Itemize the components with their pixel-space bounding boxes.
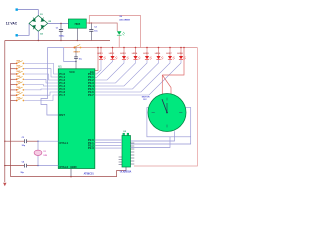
ULN output pin 3 stub: [131, 148, 135, 150]
wire +5V upper feed to LED rail: [89, 16, 140, 48]
wire LED8 to P0.7: [95, 60, 181, 95]
junction regulator gnd on rail: [77, 40, 78, 41]
svg-text:P1.7: P1.7: [59, 93, 65, 97]
LED4 triangle: [133, 56, 137, 59]
wire SW2 to P1.1: [24, 69, 58, 77]
switch SW8 terminal b: [23, 100, 25, 102]
wire node to XTAL1: [38, 140, 58, 142]
ULN output pin 8 stub: [131, 163, 135, 165]
LED6 triangle: [156, 56, 160, 59]
switch SW7 terminal a: [16, 94, 18, 96]
svg-text:U1: U1: [58, 65, 62, 68]
wire reset to RST pin: [41, 48, 58, 116]
ULN output pin 5 stub: [131, 154, 135, 156]
wire LED4 to P0.3: [95, 60, 136, 83]
svg-text:C1: C1: [56, 28, 59, 30]
motor needle: [162, 99, 167, 112]
svg-text:12V: 12V: [143, 99, 147, 101]
wire P2.1 to ULN in2: [95, 142, 122, 144]
diode D3 (bottom-right arm): [41, 25, 45, 29]
diode D1 (top-left arm): [32, 18, 36, 22]
wire border to C4: [5, 165, 24, 167]
svg-text:D9: D9: [120, 16, 123, 18]
wire bus to SW8: [11, 100, 16, 102]
svg-text:AT89C51: AT89C51: [84, 172, 95, 175]
wire ULN out1 to motor bottom: [131, 131, 175, 141]
junction rail LED1: [100, 47, 102, 49]
driver U2 top pin bumps: [123, 133, 125, 135]
wire bridge + output to regulator: [48, 22, 69, 24]
junction input cap top: [60, 23, 62, 25]
svg-text:10u: 10u: [94, 30, 98, 32]
LED7 cathode bar: [168, 59, 172, 61]
LED3 cathode bar: [122, 59, 126, 61]
terminal T2 (AC neutral): [16, 34, 18, 36]
LED2 triangle: [110, 56, 114, 59]
switch SW6 lever: [17, 87, 23, 90]
capacitor C2 top lead: [90, 23, 92, 29]
wire motor pin 2 drop: [162, 75, 171, 94]
right border wire: [134, 48, 197, 167]
LED2 emission arrows: [115, 56, 117, 59]
crystal X1 vertical wire: [37, 141, 39, 165]
junction rail LED2: [112, 47, 114, 49]
junction MCU gnd on bottom rail: [70, 176, 72, 178]
wire reset blue top: [48, 47, 64, 49]
wire rail to motor top: [162, 48, 184, 76]
wire LED5 to P0.4: [95, 60, 147, 86]
svg-text:LED6: LED6: [155, 53, 161, 55]
switch SW3 lever: [17, 71, 23, 74]
junction bridge gnd on rail: [38, 40, 39, 41]
wire bus to SW6: [11, 89, 16, 91]
LED7 emission arrows: [173, 56, 175, 59]
LED5 anode stub: [146, 48, 148, 57]
svg-text:7805: 7805: [74, 22, 80, 26]
LED1 anode stub: [100, 48, 102, 57]
LED D9 emission arrows: [122, 32, 125, 36]
junction output cap top: [91, 22, 93, 24]
motor hub: [166, 112, 168, 114]
switch SW8 terminal a: [16, 100, 18, 102]
switch SW3 terminal a: [16, 73, 18, 75]
ground symbol: [3, 183, 6, 186]
junction rail LED5: [146, 47, 148, 49]
switch SW6 terminal a: [16, 89, 18, 91]
wire blue jog to RST cap node: [64, 48, 76, 62]
wire bus to SW3: [11, 73, 16, 75]
LED1 cathode bar: [99, 59, 103, 61]
junction rail LED6: [158, 47, 160, 49]
junction border xtal1: [4, 141, 5, 142]
svg-text:LED7: LED7: [166, 53, 172, 55]
svg-text:LED8: LED8: [177, 53, 183, 55]
LED6 emission arrows: [161, 56, 163, 59]
svg-text:D2: D2: [49, 21, 51, 23]
motor needle vertical: [166, 103, 168, 113]
switch SW5 lever: [17, 82, 23, 85]
wire SW8 to P1.7: [24, 95, 58, 101]
wire T1 to bridge top: [18, 10, 38, 16]
junction xtal node top: [37, 141, 38, 142]
switch SW4 lever: [17, 77, 23, 80]
terminal T1 (AC live): [16, 8, 18, 10]
motor tick right: [179, 112, 182, 114]
svg-text:LED-GREEN: LED-GREEN: [119, 19, 130, 21]
svg-text:30p: 30p: [20, 172, 24, 174]
left border wire: [4, 41, 6, 183]
LED5 emission arrows: [150, 56, 152, 59]
wire ULN out3 to motor loop: [131, 137, 171, 148]
LED4 cathode bar: [133, 59, 137, 61]
LED8 triangle: [179, 56, 183, 59]
junction rail LED4: [135, 47, 137, 49]
LED D9 green power indicator triangle: [117, 31, 122, 35]
motor tick top: [166, 98, 168, 101]
LED1 emission arrows: [104, 56, 106, 59]
MCU U1 body: [58, 69, 95, 169]
main +5V LED rail: [64, 47, 198, 49]
wire SW7 to P1.6: [24, 92, 58, 95]
wire node to XTAL2: [38, 165, 58, 167]
wire SW3 to P1.2: [24, 74, 58, 80]
wire bus to SW5: [11, 84, 16, 86]
reset button SW9 terminal a: [74, 47, 76, 49]
LED6 anode stub: [158, 48, 160, 57]
svg-text:XTAL2: XTAL2: [59, 165, 68, 169]
reset button SW9 lever: [75, 45, 81, 48]
LED8 emission arrows: [184, 56, 186, 59]
svg-text:LED2: LED2: [109, 53, 115, 55]
svg-text:1000u: 1000u: [59, 36, 65, 38]
driver U2 body: [122, 136, 131, 168]
svg-text:C3: C3: [22, 137, 25, 139]
switch SW1 terminal b: [23, 63, 25, 65]
motor M1 body: [148, 94, 186, 132]
wire C4 to node: [27, 165, 38, 167]
LED7 anode stub: [169, 48, 171, 57]
capacitor C3 plates: [24, 139, 26, 143]
switch SW3 terminal b: [23, 73, 25, 75]
ULN input pin 6 stub: [119, 161, 122, 163]
junction +5V takeoff: [89, 22, 91, 24]
capacitor C1 top lead: [60, 23, 62, 29]
switch SW2 terminal a: [16, 68, 18, 70]
LED3 anode stub: [123, 48, 125, 57]
regulator U3 7805 body: [68, 19, 86, 28]
switch SW4 terminal b: [23, 78, 25, 80]
LED2 anode stub: [112, 48, 114, 57]
ULN output pin 4 stub: [131, 151, 135, 153]
svg-text:D1: D1: [40, 14, 42, 16]
LED5 triangle: [145, 56, 149, 59]
ULN2003 gnd pin wire: [125, 167, 127, 171]
svg-text:LED4: LED4: [132, 52, 138, 55]
bottom ground rail: [11, 171, 127, 177]
motor tick bottom: [166, 125, 168, 128]
ground rail top: [5, 40, 110, 42]
wire bridge - to ground rail: [37, 31, 39, 40]
capacitor C2 bottom lead: [90, 32, 92, 41]
wire LED1 to P0.0: [95, 60, 101, 74]
diode D2 (top-right arm): [41, 18, 45, 22]
junction RST cap node: [75, 61, 76, 62]
svg-text:ULN2003A: ULN2003A: [120, 171, 132, 174]
LED4 emission arrows: [138, 56, 140, 59]
junction rail motor feed: [183, 47, 185, 49]
LED8 cathode bar: [179, 59, 183, 61]
diode D4 (bottom-left arm): [32, 25, 36, 29]
capacitor C1 bottom lead: [60, 32, 62, 41]
switch SW4 terminal a: [16, 78, 18, 80]
junction xtal node bottom: [37, 165, 38, 166]
LED6 cathode bar: [156, 59, 160, 61]
bridge rectifier BR1 outline: [29, 16, 48, 32]
svg-text:RST: RST: [59, 113, 65, 117]
switch SW6 terminal b: [23, 89, 25, 91]
wire LED6 to P0.5: [95, 60, 159, 89]
svg-text:12 VAC: 12 VAC: [6, 21, 18, 25]
junction C1 gnd on rail: [60, 40, 61, 41]
svg-text:XTAL1: XTAL1: [59, 141, 68, 145]
junction rail EA drop: [97, 47, 99, 49]
wire bus to SW2: [11, 68, 16, 70]
svg-text:U2: U2: [123, 131, 126, 133]
capacitor C5 bottom lead: [75, 59, 77, 69]
switch SW5 terminal b: [23, 84, 25, 86]
svg-text:GND: GND: [70, 165, 76, 169]
ULN output pin 7 stub: [131, 160, 135, 162]
capacitor C2 plates: [89, 30, 93, 32]
motor tick left: [152, 112, 155, 114]
svg-text:VCC: VCC: [69, 70, 75, 74]
LED3 emission arrows: [127, 56, 129, 59]
wire SW1 to P1.0: [24, 63, 58, 74]
wire motor pin 1 drop: [161, 75, 163, 94]
wire SW5 to P1.4: [24, 85, 58, 86]
ULN input pin 7 stub: [119, 164, 122, 166]
wire SW6 to P1.5: [24, 88, 58, 91]
svg-text:D4: D4: [40, 32, 43, 35]
LED5 cathode bar: [145, 59, 149, 61]
svg-text:LED1: LED1: [97, 53, 103, 55]
switch common bus: [10, 63, 12, 176]
wire C3 to node: [27, 140, 38, 142]
svg-text:C4: C4: [22, 161, 25, 164]
switch SW7 lever: [17, 92, 23, 95]
junction rail LED8: [180, 47, 182, 49]
svg-text:30p: 30p: [22, 145, 26, 147]
svg-text:P0.7: P0.7: [88, 93, 94, 97]
wire SW4 to P1.3: [24, 79, 58, 83]
wire P2.0 to ULN in1: [95, 139, 122, 141]
svg-text:10u: 10u: [79, 58, 83, 60]
capacitor C5 plates: [74, 57, 78, 59]
wire LED7 to P0.6: [95, 60, 170, 92]
LED1 triangle: [99, 56, 103, 59]
junction border xtal2: [4, 165, 5, 166]
wire P2.2 to ULN in3: [95, 144, 122, 146]
ULN input pin 4 stub: [119, 156, 122, 158]
wire ULN out2 to motor right: [131, 137, 191, 144]
ULN output pin 1 stub: [131, 142, 135, 144]
junction rail LED3: [123, 47, 125, 49]
regulator ground pin: [76, 28, 78, 40]
wire regulator output +5V: [86, 23, 117, 31]
svg-text:C2: C2: [94, 27, 97, 29]
switch SW2 terminal b: [23, 68, 25, 70]
LED7 triangle: [168, 56, 172, 59]
crystal X1 body: [34, 150, 42, 155]
capacitor C5 top lead: [75, 48, 77, 57]
svg-text:RESET: RESET: [74, 52, 81, 54]
MCU GND pin wire: [70, 169, 72, 177]
svg-text:12M: 12M: [43, 155, 47, 157]
wire LED2 to P0.1: [95, 60, 113, 78]
switch SW1 lever: [17, 61, 23, 64]
switch SW7 terminal b: [23, 94, 25, 96]
ULN output pin 2 stub: [131, 145, 135, 147]
wire border to C3: [5, 140, 24, 142]
LED2 cathode bar: [110, 59, 114, 61]
wire LED3 to P0.2: [95, 60, 124, 80]
LED4 anode stub: [135, 48, 137, 57]
wire LED D9 to rail: [118, 35, 120, 47]
LED3 triangle: [122, 56, 126, 59]
motor wire loop box: [147, 108, 191, 137]
junction rail LED7: [169, 47, 171, 49]
wire bus to SW1: [11, 62, 16, 64]
ULN output pin 6 stub: [131, 157, 135, 159]
svg-text:LED5: LED5: [143, 53, 149, 55]
wire bus to SW4: [11, 78, 16, 80]
svg-text:P2.3: P2.3: [88, 146, 94, 150]
LED D9 cathode bar: [117, 34, 122, 36]
svg-text:X1: X1: [43, 151, 46, 153]
switch SW5 terminal a: [16, 84, 18, 86]
capacitor C4 plates: [24, 164, 26, 168]
wire P2.3 to ULN in4: [95, 147, 122, 149]
svg-text:LED3: LED3: [120, 53, 126, 55]
switch SW2 lever: [17, 66, 23, 69]
ULN input pin 5 stub: [119, 159, 122, 161]
reset button SW9 terminal b: [80, 47, 82, 49]
wire rail to EA pin: [95, 48, 98, 71]
switch SW8 lever: [17, 98, 23, 101]
wire T2 to bridge left: [18, 23, 29, 35]
switch SW1 terminal a: [16, 63, 18, 65]
wire bus to SW7: [11, 94, 16, 96]
capacitor C1 plates: [59, 30, 63, 32]
LED8 anode stub: [180, 48, 182, 57]
